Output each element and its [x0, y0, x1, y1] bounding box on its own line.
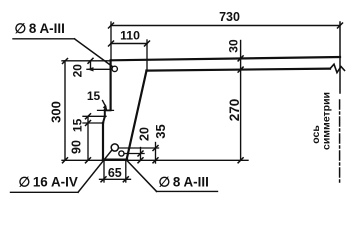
dimension 20 top-left: extension to circle level: [87, 68, 111, 70]
dimension 35 bottom: vertical dim line: [155, 143, 157, 164]
svg-text:35: 35: [153, 124, 168, 138]
dimension 110: left tick: [109, 41, 114, 46]
svg-text:∅ 8 A-III: ∅ 8 A-III: [159, 175, 209, 190]
dimension 30: tick at flange top: [238, 56, 243, 61]
dimension 15 step: lower extension line: [83, 122, 104, 124]
dimension 65: left tick: [101, 177, 106, 182]
step callout 15: arrowhead: [103, 105, 108, 111]
dimension 20 bottom: extension line at small circle level: [125, 153, 145, 155]
section outline: rib bottom: [103, 158, 127, 160]
svg-text:300: 300: [49, 101, 64, 123]
svg-text:ось: ось: [310, 125, 322, 144]
dimension 15: tick lower: [86, 121, 91, 126]
dimension 15 step: upper extension line: [83, 115, 106, 117]
dimension 35 bottom: extension line at big circle level: [119, 147, 159, 149]
svg-text:270: 270: [227, 99, 242, 122]
rebar circle Ø8 top: [112, 66, 117, 71]
extension line top left (top surface extended): [62, 60, 111, 62]
dimension 20 bottom: vertical dim line: [140, 148, 142, 161]
svg-text:∅ 16 A-IV: ∅ 16 A-IV: [19, 175, 78, 190]
extension line right of 730 / symmetry solid part: [339, 22, 341, 93]
section outline: top surface of flange: [111, 57, 340, 60]
dimension 15/90: vertical dim line: [87, 116, 89, 160]
dimension 15: tick upper: [86, 114, 91, 119]
extension line left of 730/110 above rib: [110, 22, 112, 59]
extension line through step face for 15 callout: [98, 109, 114, 111]
section outline: rib left edge upper: [109, 60, 111, 109]
svg-text:730: 730: [219, 10, 240, 24]
dimension 730: left tick: [109, 23, 114, 28]
break squiggle on flange bottom near axis: [330, 64, 345, 72]
extension line bottom right (270 bottom / rib bottom level): [62, 159, 248, 161]
section outline: rib upper step face: [105, 109, 111, 111]
leader for label Ø 8 A-III top: [75, 39, 113, 67]
svg-text:65: 65: [108, 166, 122, 180]
dimension 110: line: [111, 43, 147, 45]
section outline: rib left edge middle: [104, 110, 106, 117]
dimension 30/270: tick at flange bottom: [238, 67, 243, 72]
dimension 35 bottom: top tick: [153, 146, 158, 151]
dimension 90: bottom tick: [86, 158, 91, 163]
dimension 65: right tick: [123, 177, 128, 182]
step callout 15: leader with arrow: [103, 101, 106, 107]
section outline: rib left edge lower: [102, 123, 104, 160]
dimension 270: tick at bottom: [238, 158, 243, 163]
dimension 20 top-left: short dim line: [90, 61, 92, 70]
underline of label Ø 8 A-III top: [13, 38, 75, 40]
dimension 30/270 shared vertical line: [240, 41, 242, 161]
dimension 65: left extension line: [103, 161, 105, 182]
dimension 300: vertical line: [64, 61, 66, 160]
svg-text:20: 20: [71, 64, 85, 78]
section outline: rib step chamfer: [103, 117, 105, 124]
svg-text:15: 15: [87, 89, 101, 103]
dimension 110: right tick: [145, 41, 150, 46]
dimension 20 bottom: top tick: [138, 151, 143, 156]
dimension 20 top-left: arrow pointing left: [87, 67, 94, 71]
section outline: rib right slope: [127, 71, 147, 160]
dimension 300: top tick: [63, 59, 68, 64]
svg-text:∅ 8 A-III: ∅ 8 A-III: [15, 21, 65, 36]
svg-text:20: 20: [138, 127, 152, 141]
section outline: flange bottom: [147, 69, 331, 71]
dimension 65: right extension line: [125, 161, 127, 182]
svg-text:симметрии: симметрии: [321, 92, 333, 150]
dimension 730: line: [111, 25, 340, 27]
svg-text:15: 15: [70, 118, 84, 132]
underline of label Ø 8 A-III bottom: [157, 190, 218, 192]
dimension 35 bottom: bottom tick: [153, 158, 158, 163]
dimension 65: dim line: [100, 178, 131, 180]
leader for label Ø 16 A-IV: [78, 150, 112, 192]
rebar circle Ø8 bottom: [119, 151, 124, 156]
dimension 300: bottom tick: [63, 158, 68, 163]
dimension 20 bottom: bottom tick: [138, 158, 143, 163]
axis of symmetry dash-dot line: [339, 100, 341, 182]
rebar circle Ø16 bottom: [111, 144, 118, 151]
underline of label Ø 16 A-IV: [11, 191, 79, 193]
svg-text:110: 110: [120, 29, 140, 43]
extension line 110 right: [146, 40, 148, 71]
dimension 20 top-left: upper slash tick: [88, 58, 93, 63]
leader for label Ø 8 A-III bottom: [126, 160, 157, 192]
svg-text:30: 30: [227, 39, 241, 53]
dimension 730: right tick: [338, 23, 343, 28]
svg-text:90: 90: [70, 140, 84, 154]
